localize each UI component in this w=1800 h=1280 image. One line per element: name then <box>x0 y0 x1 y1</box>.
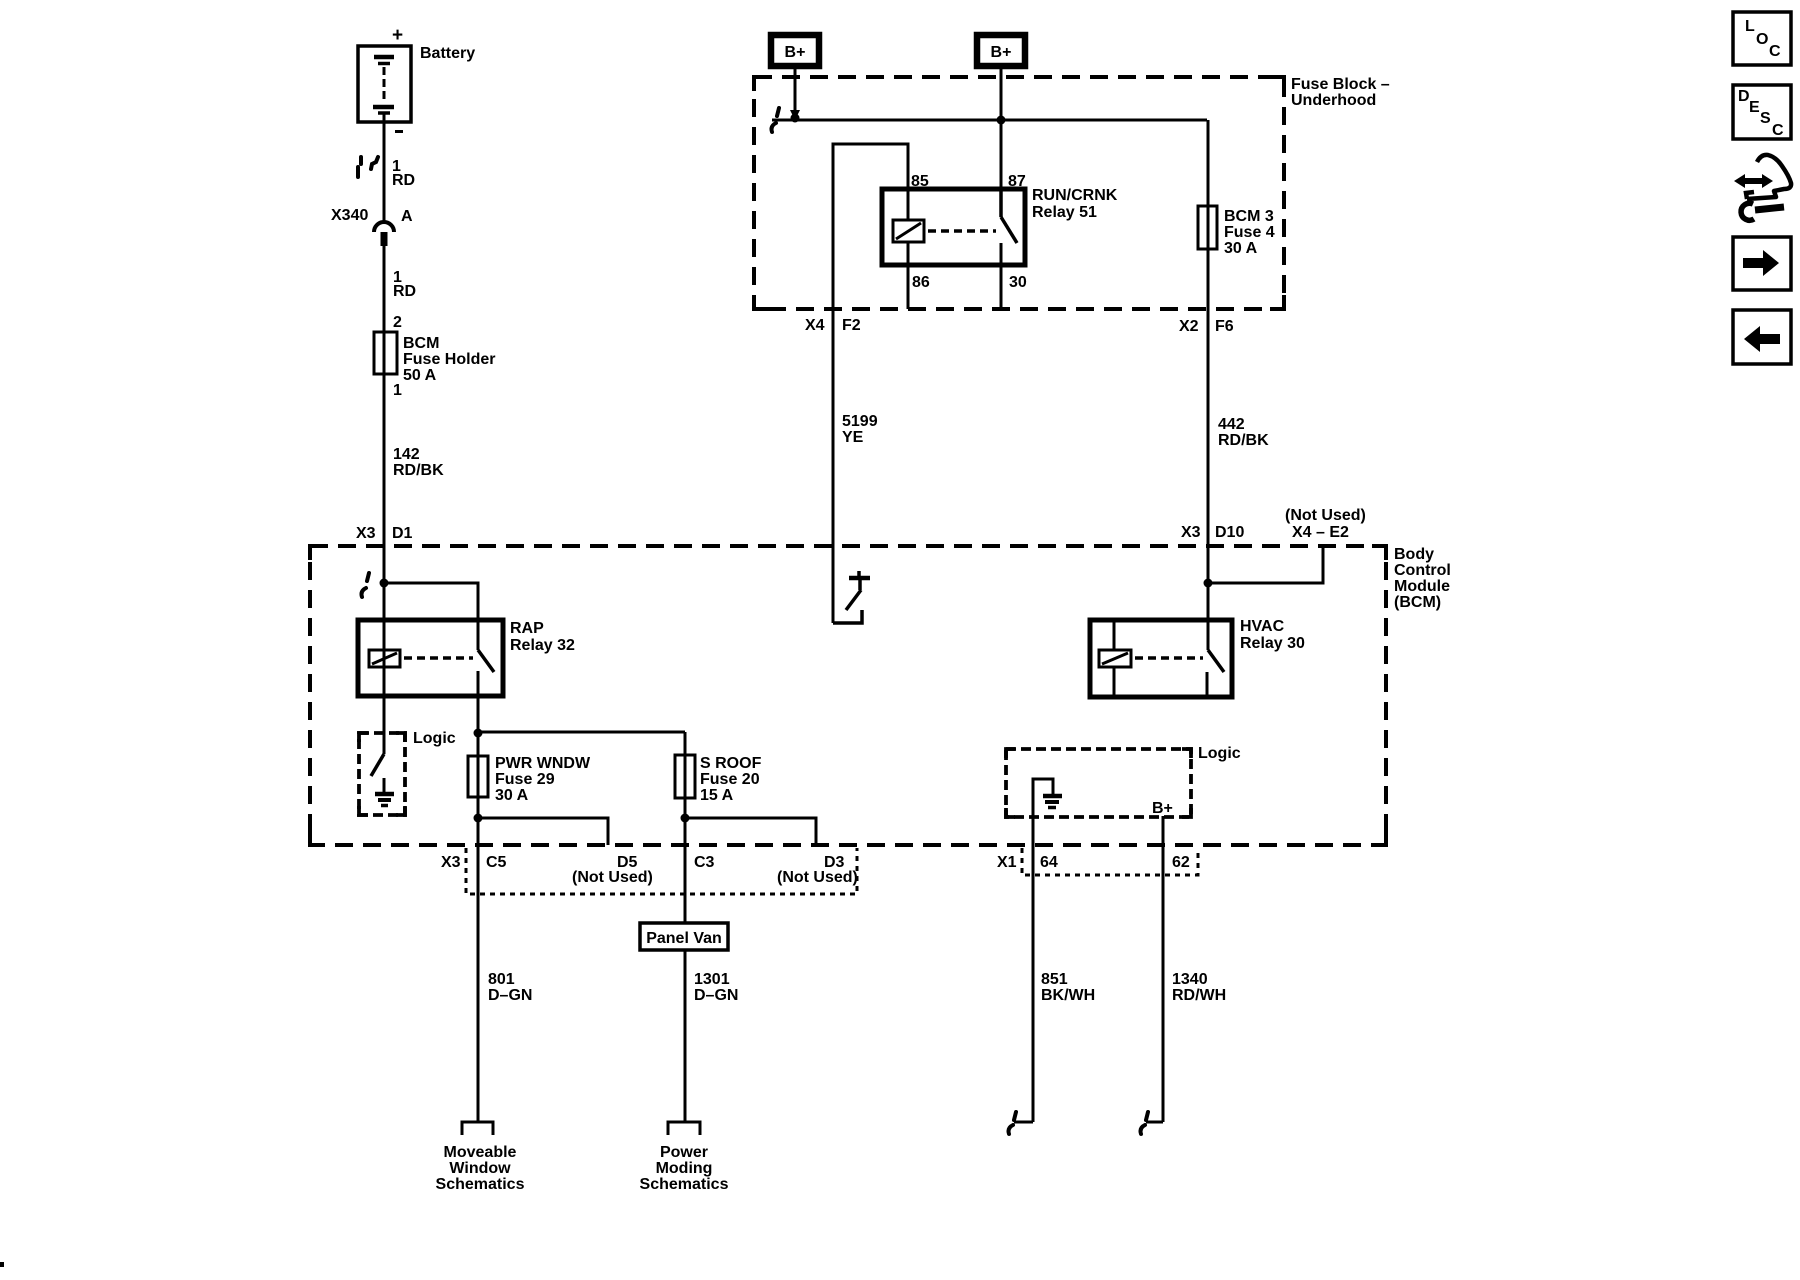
svg-text:RD: RD <box>392 172 415 189</box>
svg-text:Fuse 20: Fuse 20 <box>700 771 760 788</box>
svg-text:D–GN: D–GN <box>488 987 532 1004</box>
svg-text:D1: D1 <box>392 525 413 542</box>
svg-text:86: 86 <box>912 274 930 291</box>
svg-text:30: 30 <box>1009 274 1027 291</box>
svg-text:Fuse 4: Fuse 4 <box>1224 224 1275 241</box>
svg-text:30 A: 30 A <box>1224 240 1258 257</box>
svg-text:C3: C3 <box>694 854 715 871</box>
svg-text:B+: B+ <box>785 44 806 61</box>
svg-text:RD: RD <box>393 283 416 300</box>
svg-text:Body: Body <box>1394 546 1434 563</box>
svg-text:442: 442 <box>1218 416 1245 433</box>
svg-text:15 A: 15 A <box>700 787 734 804</box>
svg-text:RUN/CRNK: RUN/CRNK <box>1032 187 1118 204</box>
svg-text:HVAC: HVAC <box>1240 618 1285 635</box>
svg-text:BCM 3: BCM 3 <box>1224 208 1274 225</box>
svg-text:Panel Van: Panel Van <box>646 930 722 947</box>
svg-text:(Not Used): (Not Used) <box>1285 507 1366 524</box>
svg-text:X340: X340 <box>331 207 368 224</box>
svg-text:PWR WNDW: PWR WNDW <box>495 755 591 772</box>
svg-text:1301: 1301 <box>694 971 730 988</box>
svg-text:S ROOF: S ROOF <box>700 755 762 772</box>
svg-text:RD/WH: RD/WH <box>1172 987 1226 1004</box>
svg-text:B+: B+ <box>991 44 1012 61</box>
svg-text:Moveable: Moveable <box>444 1144 517 1161</box>
svg-text:62: 62 <box>1172 854 1190 871</box>
svg-text:Relay 51: Relay 51 <box>1032 204 1097 221</box>
svg-text:A: A <box>401 208 413 225</box>
svg-text:64: 64 <box>1040 854 1058 871</box>
svg-text:F6: F6 <box>1215 318 1234 335</box>
svg-text:Fuse 29: Fuse 29 <box>495 771 555 788</box>
svg-text:X2: X2 <box>1179 318 1199 335</box>
svg-text:5199: 5199 <box>842 413 878 430</box>
svg-text:142: 142 <box>393 446 420 463</box>
svg-text:D10: D10 <box>1215 524 1244 541</box>
svg-text:F2: F2 <box>842 317 861 334</box>
svg-text:2: 2 <box>393 314 402 331</box>
svg-text:BCM: BCM <box>403 335 439 352</box>
svg-text:RAP: RAP <box>510 620 544 637</box>
svg-text:+: + <box>392 25 403 46</box>
svg-text:C: C <box>1769 43 1781 60</box>
svg-text:X3: X3 <box>356 525 376 542</box>
svg-text:X1: X1 <box>997 854 1017 871</box>
svg-text:S: S <box>1760 110 1771 127</box>
svg-text:X4: X4 <box>805 317 825 334</box>
svg-text:D: D <box>1738 88 1750 105</box>
svg-text:50 A: 50 A <box>403 367 437 384</box>
svg-text:B+: B+ <box>1152 800 1173 817</box>
svg-text:801: 801 <box>488 971 515 988</box>
svg-text:Fuse Block –: Fuse Block – <box>1291 76 1390 93</box>
svg-text:Fuse Holder: Fuse Holder <box>403 351 495 368</box>
svg-text:(BCM): (BCM) <box>1394 594 1441 611</box>
svg-text:Power: Power <box>660 1144 708 1161</box>
svg-text:Module: Module <box>1394 578 1450 595</box>
svg-text:L: L <box>1745 18 1755 35</box>
svg-text:Logic: Logic <box>413 730 456 747</box>
svg-text:851: 851 <box>1041 971 1068 988</box>
svg-text:YE: YE <box>842 429 864 446</box>
svg-text:Battery: Battery <box>420 45 475 62</box>
svg-text:Relay 32: Relay 32 <box>510 637 575 654</box>
svg-text:X3: X3 <box>441 854 461 871</box>
svg-text:85: 85 <box>911 173 929 190</box>
svg-text:(Not Used): (Not Used) <box>572 869 653 886</box>
svg-text:X3: X3 <box>1181 524 1201 541</box>
svg-text:BK/WH: BK/WH <box>1041 987 1095 1004</box>
svg-text:Schematics: Schematics <box>436 1176 525 1193</box>
svg-text:X4 – E2: X4 – E2 <box>1292 524 1349 541</box>
svg-text:Underhood: Underhood <box>1291 92 1376 109</box>
svg-text:O: O <box>1756 31 1768 48</box>
svg-text:RD/BK: RD/BK <box>1218 432 1269 449</box>
svg-text:C5: C5 <box>486 854 507 871</box>
svg-text:D–GN: D–GN <box>694 987 738 1004</box>
svg-text:Moding: Moding <box>656 1160 713 1177</box>
svg-text:C: C <box>1772 122 1784 139</box>
svg-text:Window: Window <box>449 1160 511 1177</box>
svg-text:RD/BK: RD/BK <box>393 462 444 479</box>
svg-text:1340: 1340 <box>1172 971 1208 988</box>
svg-text:E: E <box>1749 99 1760 116</box>
svg-text:Relay 30: Relay 30 <box>1240 635 1305 652</box>
svg-text:30 A: 30 A <box>495 787 529 804</box>
svg-text:1: 1 <box>393 382 402 399</box>
svg-text:(Not Used): (Not Used) <box>777 869 858 886</box>
svg-text:Schematics: Schematics <box>640 1176 729 1193</box>
svg-text:Logic: Logic <box>1198 745 1241 762</box>
svg-text:Control: Control <box>1394 562 1451 579</box>
svg-text:87: 87 <box>1008 173 1026 190</box>
